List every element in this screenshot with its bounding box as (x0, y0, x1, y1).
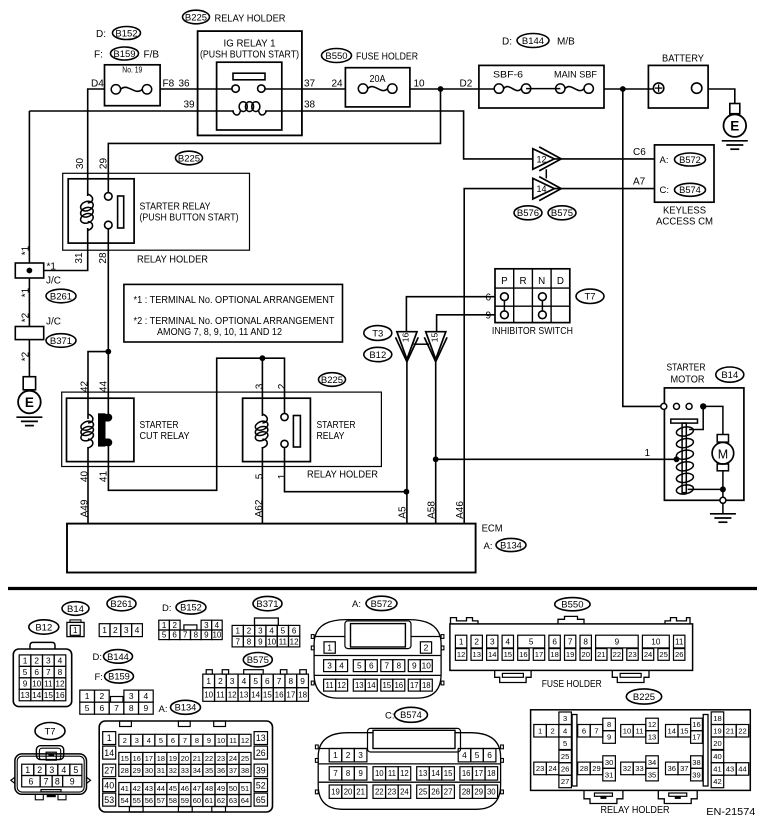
svg-text:39: 39 (256, 766, 266, 776)
svg-text:1: 1 (459, 638, 464, 647)
wire inhibitor pin 9 to connector 15 (437, 315, 495, 332)
label F: B159 F/B (94, 47, 159, 61)
label D: B144 M/B (502, 34, 575, 48)
connector view B550 (fuse holder) (450, 598, 693, 690)
svg-text:12: 12 (648, 720, 656, 729)
svg-text:7: 7 (236, 637, 241, 646)
svg-text:1: 1 (102, 625, 107, 635)
junction node A5/starter relay 1 (404, 489, 410, 495)
svg-text:3: 3 (135, 736, 139, 745)
svg-text:3: 3 (204, 621, 209, 630)
svg-text:27: 27 (561, 777, 569, 786)
svg-text:B225: B225 (321, 375, 343, 386)
svg-text:R: R (519, 276, 526, 287)
svg-text:17: 17 (692, 733, 700, 742)
svg-text:53: 53 (104, 795, 114, 805)
svg-text:*1 : TERMINAL No. OPTIONAL ARR: *1 : TERMINAL No. OPTIONAL ARRANGEMENT (134, 295, 335, 306)
svg-text:B134: B134 (500, 540, 522, 550)
svg-text:7: 7 (594, 726, 598, 735)
svg-text:A49: A49 (80, 499, 91, 517)
svg-text:10: 10 (414, 79, 426, 90)
svg-text:40: 40 (713, 752, 721, 761)
ground E (battery) (722, 104, 748, 150)
svg-text:17: 17 (286, 690, 295, 699)
svg-text:2: 2 (551, 726, 555, 735)
starter cut relay K:starter-cut-relay (67, 398, 190, 461)
wire MAIN SBF to battery (604, 88, 659, 90)
svg-text:2: 2 (99, 691, 104, 701)
svg-text:9: 9 (615, 638, 620, 647)
svg-text:6: 6 (582, 726, 586, 735)
svg-text:59: 59 (181, 796, 189, 805)
connector view T7 (11, 723, 91, 800)
svg-text:M: M (718, 447, 728, 461)
svg-text:23: 23 (217, 754, 225, 763)
svg-text:20: 20 (713, 739, 721, 748)
relay holder box (cut/starter relays) (62, 392, 382, 466)
svg-text:17: 17 (535, 650, 543, 659)
svg-text:B225: B225 (633, 692, 655, 703)
connector triangle 16 (396, 332, 419, 362)
wire pin 44 down (107, 352, 109, 414)
svg-text:11: 11 (326, 681, 334, 690)
svg-text:No. 19: No. 19 (122, 65, 142, 75)
svg-text:9: 9 (358, 769, 362, 778)
svg-text:T7: T7 (584, 292, 595, 303)
svg-text:2: 2 (474, 638, 479, 647)
wire 15 to ECM A58 (435, 359, 437, 523)
svg-text:34: 34 (648, 758, 656, 767)
svg-text:15: 15 (121, 754, 129, 763)
svg-text:36: 36 (179, 79, 191, 90)
wire 20A fuse to SBF-6 (410, 88, 499, 90)
svg-text:48: 48 (205, 784, 213, 793)
svg-text:4: 4 (135, 625, 140, 635)
svg-text:3: 3 (563, 714, 567, 723)
svg-text:4: 4 (147, 736, 151, 745)
svg-text:1: 1 (236, 627, 241, 636)
wire D4 to fuse No.19 and down to starter relay coil pin 30 (88, 89, 105, 196)
svg-text:C:: C: (385, 710, 395, 721)
separator line (8, 587, 757, 590)
wire to starter motor pin 1 (436, 458, 677, 460)
svg-text:B159: B159 (108, 672, 130, 682)
svg-text:51: 51 (241, 784, 249, 793)
svg-text:14: 14 (488, 650, 496, 659)
svg-text:B225: B225 (178, 153, 200, 164)
svg-text:30: 30 (605, 758, 613, 767)
svg-text:E: E (730, 119, 739, 134)
junction connector J/C B371 (15, 327, 43, 340)
connector view B261 (99, 596, 142, 636)
svg-text:13: 13 (648, 733, 656, 742)
svg-text:14: 14 (32, 690, 42, 700)
ground (starter motor) (722, 503, 724, 514)
svg-text:A58: A58 (427, 501, 438, 519)
svg-text:4: 4 (61, 765, 66, 775)
svg-text:28: 28 (121, 766, 129, 775)
connector triangle 15 (424, 332, 447, 362)
label D: B152 (96, 27, 141, 41)
junction connector J/C B261 (15, 263, 43, 278)
svg-text:3: 3 (258, 627, 263, 636)
svg-text:45: 45 (169, 784, 177, 793)
svg-text:39: 39 (184, 100, 196, 111)
svg-text:FUSE HOLDER: FUSE HOLDER (542, 679, 602, 690)
svg-text:18: 18 (550, 650, 558, 659)
junction node (ignition feed) (438, 86, 444, 92)
label B225 (176, 151, 203, 165)
svg-text:10: 10 (204, 690, 213, 699)
svg-text:CUT RELAY: CUT RELAY (140, 431, 190, 442)
wire inhibitor pin 6 to connector 16 (406, 297, 495, 332)
svg-text:15: 15 (44, 690, 54, 700)
svg-text:40: 40 (80, 471, 91, 483)
svg-text:5: 5 (357, 661, 362, 671)
svg-text:21: 21 (726, 726, 734, 735)
svg-text:16: 16 (55, 690, 65, 700)
wire pin 28 down to relay holder junction (107, 229, 109, 352)
svg-text:*1: *1 (47, 262, 57, 273)
svg-text:4: 4 (339, 661, 344, 671)
svg-text:4: 4 (215, 621, 220, 630)
svg-text:9: 9 (23, 679, 28, 689)
svg-text:*2 : TERMINAL No. OPTIONAL ARR: *2 : TERMINAL No. OPTIONAL ARRANGEMENT (134, 316, 335, 327)
svg-text:AMONG 7, 8, 9, 10, 11 AND 12: AMONG 7, 8, 9, 10, 11 AND 12 (157, 327, 282, 338)
svg-text:T7: T7 (44, 726, 55, 737)
svg-text:BATTERY: BATTERY (662, 54, 704, 65)
svg-text:36: 36 (668, 764, 676, 773)
svg-text:A:: A: (660, 155, 669, 166)
svg-text:9: 9 (204, 631, 209, 640)
svg-text:21: 21 (356, 788, 365, 797)
svg-text:P: P (501, 276, 508, 287)
svg-text:28: 28 (580, 764, 588, 773)
starter relay (push button start) K:starter-relay (68, 179, 238, 243)
svg-text:38: 38 (241, 766, 249, 775)
relay holder box (IG relay) (198, 31, 302, 135)
relay holder B225 (top) label (183, 10, 286, 24)
svg-text:43: 43 (145, 784, 153, 793)
svg-text:9: 9 (485, 310, 491, 321)
svg-text:4: 4 (144, 691, 149, 701)
svg-text:5: 5 (253, 676, 258, 686)
svg-text:8: 8 (129, 703, 134, 713)
svg-text:2: 2 (346, 750, 351, 760)
svg-text:D: D (557, 276, 564, 287)
svg-text:33: 33 (181, 766, 189, 775)
svg-text:RELAY HOLDER: RELAY HOLDER (215, 14, 286, 25)
svg-text:23: 23 (628, 650, 636, 659)
svg-text:3: 3 (327, 661, 332, 671)
svg-text:50: 50 (229, 784, 237, 793)
svg-text:37: 37 (304, 79, 316, 90)
svg-text:A62: A62 (254, 499, 265, 517)
svg-text:B134: B134 (175, 703, 197, 713)
svg-text:28: 28 (98, 252, 109, 264)
svg-text:11: 11 (636, 726, 644, 735)
svg-text:36: 36 (217, 766, 225, 775)
svg-text:8: 8 (289, 676, 294, 686)
svg-text:14: 14 (537, 184, 547, 194)
svg-text:17: 17 (410, 681, 419, 690)
svg-text:5: 5 (162, 631, 167, 640)
svg-text:2: 2 (123, 736, 127, 745)
svg-text:26: 26 (675, 650, 683, 659)
svg-text:5: 5 (159, 736, 163, 745)
svg-text:35: 35 (648, 770, 656, 779)
svg-text:C:: C: (660, 185, 670, 196)
svg-text:16: 16 (692, 720, 700, 729)
svg-text:B152: B152 (180, 603, 202, 613)
svg-text:A:: A: (159, 704, 168, 715)
svg-text:B159: B159 (113, 49, 135, 60)
wire 16 to ECM A5 (406, 359, 408, 523)
svg-text:8: 8 (396, 661, 401, 671)
svg-text:RELAY: RELAY (317, 431, 345, 442)
svg-text:65: 65 (256, 795, 266, 805)
svg-text:16: 16 (275, 690, 284, 699)
svg-text:8: 8 (55, 776, 60, 786)
svg-text:B550: B550 (325, 51, 347, 62)
svg-text:19: 19 (713, 726, 721, 735)
note box: optional terminal arrangement (124, 284, 343, 342)
amplifier 12 (533, 147, 561, 171)
svg-text:7: 7 (44, 776, 49, 786)
svg-text:B574: B574 (400, 710, 422, 720)
svg-text:B144: B144 (522, 36, 544, 47)
svg-text:6: 6 (172, 631, 177, 640)
svg-text:15: 15 (444, 769, 453, 778)
svg-text:29: 29 (133, 766, 141, 775)
svg-text:15: 15 (504, 650, 512, 659)
svg-text:KEYLESS: KEYLESS (663, 206, 706, 217)
svg-text:N: N (538, 276, 545, 287)
junction node A58/starter motor (433, 456, 439, 462)
svg-text:25: 25 (419, 788, 428, 797)
svg-text:13: 13 (419, 769, 428, 778)
svg-text:40: 40 (104, 780, 114, 790)
svg-text:24: 24 (644, 650, 652, 659)
keyless access CM U:B572/B574 (655, 145, 715, 228)
svg-text:24: 24 (229, 754, 237, 763)
svg-text:9: 9 (607, 733, 611, 742)
inhibitor switch SW:T7 (495, 269, 570, 323)
svg-text:E: E (25, 395, 34, 410)
wire amp 12 out to keyless C6 (554, 158, 654, 160)
svg-text:4: 4 (58, 656, 63, 666)
svg-text:18: 18 (713, 714, 721, 723)
svg-text:B12: B12 (369, 350, 386, 361)
svg-text:B576: B576 (517, 208, 539, 219)
svg-text:57: 57 (157, 796, 165, 805)
svg-text:MOTOR: MOTOR (671, 375, 705, 386)
svg-text:24: 24 (400, 788, 409, 797)
svg-text:21: 21 (193, 754, 201, 763)
svg-text:25: 25 (659, 650, 667, 659)
svg-text:A7: A7 (633, 177, 646, 188)
svg-text:13: 13 (256, 733, 266, 743)
svg-text:12: 12 (457, 650, 465, 659)
wire pin 41 loop to starter relay pins 3/2 (108, 358, 284, 490)
svg-text:18: 18 (422, 681, 431, 690)
wire battery junction down to starter motor (623, 89, 661, 406)
svg-text:*2: *2 (21, 312, 32, 322)
svg-text:RELAY HOLDER: RELAY HOLDER (137, 255, 208, 266)
svg-text:41: 41 (121, 784, 129, 793)
svg-text:MAIN SBF: MAIN SBF (554, 70, 597, 81)
svg-text:14: 14 (431, 769, 440, 778)
svg-text:10: 10 (375, 769, 384, 778)
wire link between triangles (414, 343, 430, 345)
wire pin 31 to J/C *1 (44, 228, 88, 271)
svg-text:11: 11 (279, 637, 288, 646)
svg-text:25: 25 (561, 752, 569, 761)
svg-text:42: 42 (133, 784, 141, 793)
svg-text:23: 23 (388, 788, 397, 797)
svg-text:9: 9 (143, 703, 148, 713)
svg-text:22: 22 (375, 788, 384, 797)
svg-text:FUSE HOLDER: FUSE HOLDER (356, 52, 418, 63)
svg-text:6: 6 (485, 292, 491, 303)
svg-text:63: 63 (229, 796, 237, 805)
svg-text:1: 1 (538, 726, 542, 735)
svg-text:6: 6 (552, 638, 557, 647)
connector view D: B144 / F: B159 (80, 650, 153, 715)
svg-text:13: 13 (472, 650, 480, 659)
svg-text:18: 18 (298, 690, 307, 699)
fuse No.19 F/B (105, 65, 161, 106)
svg-text:8: 8 (195, 736, 199, 745)
svg-text:D:: D: (502, 37, 512, 48)
svg-text:20: 20 (181, 754, 189, 763)
svg-text:D4: D4 (91, 79, 104, 90)
svg-text:B575: B575 (551, 208, 573, 219)
connector view A: B572 (311, 596, 444, 698)
relay holder box (starter relay PBS) (63, 173, 250, 250)
svg-text:A46: A46 (455, 501, 466, 519)
svg-text:RELAY HOLDER: RELAY HOLDER (601, 805, 670, 816)
svg-text:23: 23 (536, 764, 544, 773)
svg-text:27: 27 (444, 788, 453, 797)
svg-text:22: 22 (205, 754, 213, 763)
svg-text:22: 22 (738, 726, 746, 735)
svg-text:30: 30 (75, 158, 86, 170)
svg-text:A:: A: (352, 599, 361, 610)
svg-text:30: 30 (145, 766, 153, 775)
svg-text:B14: B14 (67, 604, 84, 615)
svg-text:10: 10 (422, 661, 432, 671)
svg-text:15: 15 (263, 690, 272, 699)
svg-text:8: 8 (58, 667, 63, 677)
svg-text:28: 28 (462, 788, 471, 797)
svg-text:13: 13 (20, 690, 30, 700)
labels B576 B575 (514, 206, 542, 220)
svg-text:7: 7 (114, 703, 119, 713)
svg-text:10: 10 (217, 736, 225, 745)
svg-text:2: 2 (247, 627, 252, 636)
svg-text:6: 6 (34, 667, 39, 677)
svg-text:INHIBITOR SWITCH: INHIBITOR SWITCH (492, 326, 573, 337)
svg-text:2: 2 (37, 765, 42, 775)
svg-text:6: 6 (292, 627, 297, 636)
wire J/C B261 to J/C B371 (28, 278, 30, 327)
svg-text:6: 6 (369, 661, 374, 671)
svg-text:32: 32 (169, 766, 177, 775)
svg-text:19: 19 (169, 754, 177, 763)
svg-text:27: 27 (104, 766, 114, 776)
IG relay U:IG-RELAY-1 (200, 39, 299, 131)
svg-text:STARTER: STARTER (140, 420, 179, 431)
svg-text:4: 4 (563, 726, 567, 735)
svg-text:5: 5 (475, 750, 480, 760)
svg-text:1: 1 (25, 765, 30, 775)
svg-text:IG RELAY 1: IG RELAY 1 (224, 39, 276, 50)
svg-text:7: 7 (277, 676, 282, 686)
svg-text:T3: T3 (372, 328, 383, 339)
svg-text:55: 55 (133, 796, 141, 805)
svg-text:39: 39 (692, 770, 700, 779)
svg-text:42: 42 (80, 381, 91, 393)
svg-text:12: 12 (241, 736, 249, 745)
svg-text:STARTER RELAY: STARTER RELAY (140, 202, 211, 213)
svg-text:B12: B12 (35, 622, 52, 633)
svg-text:B261: B261 (110, 599, 132, 610)
svg-text:(PUSH BUTTON START): (PUSH BUTTON START) (140, 213, 239, 224)
svg-text:2: 2 (218, 676, 223, 686)
svg-text:17: 17 (145, 754, 153, 763)
svg-text:12: 12 (290, 637, 299, 646)
labels T3 B12 (364, 326, 392, 341)
svg-text:5: 5 (563, 739, 567, 748)
svg-text:16: 16 (400, 333, 410, 343)
connector view B371 (232, 596, 300, 647)
svg-text:B574: B574 (679, 185, 701, 195)
svg-text:B371: B371 (50, 336, 72, 347)
svg-text:15: 15 (429, 333, 439, 343)
svg-text:8: 8 (583, 638, 588, 647)
svg-text:4: 4 (506, 638, 511, 647)
svg-text:2: 2 (173, 621, 178, 630)
svg-text:52: 52 (256, 780, 266, 790)
svg-text:B261: B261 (50, 291, 72, 302)
connector view B225 (relay holder) (531, 689, 751, 816)
svg-text:56: 56 (145, 796, 153, 805)
svg-text:42: 42 (713, 777, 721, 786)
svg-text:16: 16 (519, 650, 527, 659)
svg-text:B575: B575 (247, 655, 269, 666)
wire IG relay 37 to 20A fuse 24 (265, 88, 345, 90)
svg-text:11: 11 (229, 736, 237, 745)
svg-text:F:: F: (94, 50, 103, 61)
svg-text:37: 37 (229, 766, 237, 775)
svg-text:1: 1 (23, 656, 28, 666)
svg-text:RELAY HOLDER: RELAY HOLDER (307, 470, 378, 481)
svg-text:B14: B14 (721, 370, 738, 381)
svg-text:3: 3 (358, 750, 363, 760)
svg-text:10: 10 (651, 638, 661, 647)
svg-text:EN-21574: EN-21574 (706, 807, 755, 818)
svg-text:44: 44 (99, 381, 110, 393)
svg-text:44: 44 (738, 765, 746, 774)
junction node pin28/42/44 (88, 352, 108, 419)
ECM U:B134 (67, 524, 476, 573)
wire battery to ground E (708, 89, 735, 104)
svg-text:3: 3 (490, 638, 495, 647)
svg-text:SBF-6: SBF-6 (493, 70, 523, 81)
svg-text:58: 58 (169, 796, 177, 805)
svg-text:64: 64 (241, 796, 249, 805)
